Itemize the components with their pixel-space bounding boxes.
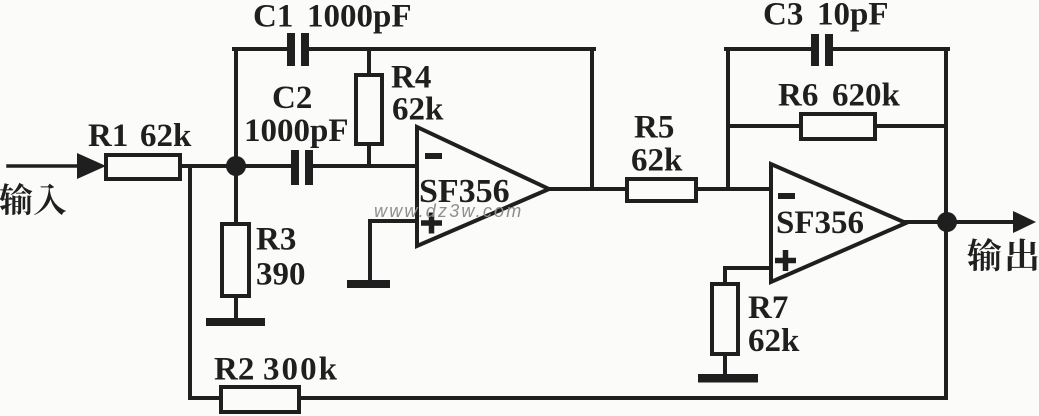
resistor R7 <box>712 284 738 354</box>
wire: C1 feedback down to U1 output <box>590 49 594 189</box>
svg-text:62k: 62k <box>140 118 192 154</box>
ground (R7) <box>698 374 758 383</box>
wire: U2 output to arrow <box>904 220 1012 224</box>
output arrow <box>1013 211 1036 233</box>
wire: node down to R3 <box>234 166 238 226</box>
label 输入 (input) <box>0 183 32 215</box>
wire: U2 noninverting input to R7 <box>725 268 772 286</box>
wire: output right vertical down to bottom rail <box>944 49 948 398</box>
wire: top rail left of C1 <box>234 47 290 51</box>
svg-text:R7: R7 <box>748 290 788 326</box>
U1 noninverting pin mark <box>421 213 442 234</box>
svg-text:62k: 62k <box>631 143 683 179</box>
svg-text:62k: 62k <box>392 92 444 128</box>
wire: bottom rail (R2 path) <box>190 396 946 400</box>
resistor R3 <box>222 224 249 296</box>
resistor R6 <box>801 114 875 139</box>
wire: U1 output to R5 <box>547 187 629 191</box>
wire: R6 left lead <box>728 124 804 128</box>
resistor R1 <box>106 155 180 179</box>
svg-text:300k: 300k <box>263 352 338 388</box>
wire: top rail C1 to feedback corner <box>306 47 594 51</box>
wire: C2 to U1 inverting input <box>312 164 418 168</box>
resistor R2 <box>221 387 299 412</box>
label 输出 (output) <box>967 238 1001 271</box>
svg-text:10pF: 10pF <box>817 0 889 33</box>
svg-text:R4: R4 <box>391 60 431 96</box>
resistor R5 <box>627 179 696 201</box>
op-amp U2 <box>771 164 906 282</box>
wire: U1 noninverting input to ground <box>370 221 418 281</box>
svg-text:1000pF: 1000pF <box>307 0 412 35</box>
node A: summing junction dot <box>226 156 246 176</box>
wire: R7 to ground <box>723 352 727 377</box>
svg-text:R2: R2 <box>214 352 254 388</box>
input arrow <box>77 153 106 179</box>
ground (R3) <box>206 318 265 326</box>
wire: R4 top lead <box>367 49 371 77</box>
svg-text:R6: R6 <box>778 78 818 114</box>
svg-text:390: 390 <box>256 257 306 293</box>
capacitor C1 <box>287 33 295 66</box>
U1 inverting pin mark <box>425 153 442 159</box>
svg-text:62k: 62k <box>748 323 800 359</box>
svg-text:R1: R1 <box>88 118 128 154</box>
svg-text:C1: C1 <box>253 0 293 35</box>
U2 inverting pin mark <box>778 193 795 199</box>
wire: top rail left of C3 <box>726 47 814 51</box>
svg-text:C3: C3 <box>763 0 803 33</box>
capacitor C3 <box>811 34 819 66</box>
U2 noninverting pin mark <box>775 250 796 271</box>
wire: feedback left vertical (C3/R6) <box>726 49 730 189</box>
wire: top rail C3 to output vertical <box>831 47 948 51</box>
svg-text:620k: 620k <box>832 78 901 114</box>
resistor R4 <box>356 75 382 144</box>
ground (U1 noninverting) <box>347 280 390 288</box>
wire: R6 right lead <box>872 124 946 128</box>
svg-text:R5: R5 <box>634 110 674 146</box>
op-amp U1 <box>417 127 549 246</box>
capacitor C2 <box>291 150 299 185</box>
wire: bottom feedback left vertical <box>188 166 192 398</box>
wire: R4 bottom lead <box>367 143 371 166</box>
wire: R5 to U2 inverting input <box>694 187 772 191</box>
svg-text:SF356: SF356 <box>776 205 864 241</box>
wire: R1 to C2 (node segment) <box>180 164 291 168</box>
wire: input lead <box>8 164 80 168</box>
svg-text:www.dz3w.com: www.dz3w.com <box>374 201 523 221</box>
wire: node up to C1 rail <box>234 49 238 166</box>
node B: output junction dot <box>937 212 957 232</box>
svg-text:R3: R3 <box>256 222 296 258</box>
wire: R3 to ground <box>234 294 238 320</box>
svg-text:C2: C2 <box>272 80 312 116</box>
svg-text:1000pF: 1000pF <box>244 113 349 149</box>
